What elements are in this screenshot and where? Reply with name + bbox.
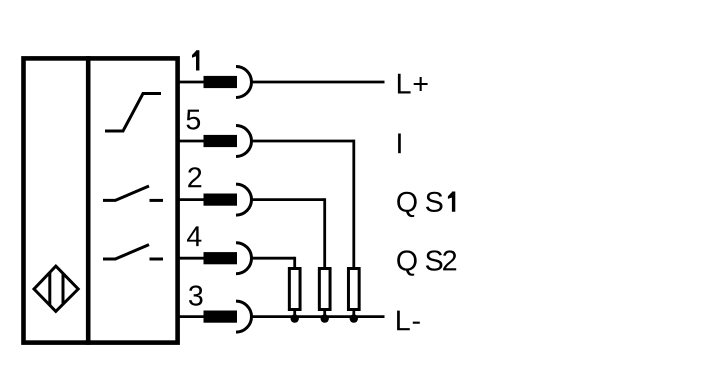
junction dot at R2/L- (321, 314, 329, 322)
sensor body divider (86, 56, 91, 345)
pin 3 number label (189, 285, 203, 305)
switch contact S1 (103, 186, 163, 200)
wire Q S2 vertical drop (293, 257, 296, 269)
sensor element symbol (diamond with plates) (34, 266, 78, 311)
pin 3 stub wire (178, 315, 206, 318)
net label Q S1 (397, 192, 455, 218)
wire Q S1 horizontal (252, 198, 325, 201)
pin 5 number label (187, 110, 201, 130)
junction dot at R1/L- (291, 314, 299, 322)
sensor body outline (24, 58, 178, 342)
pin 1 number label (192, 50, 199, 70)
pin 4 stub wire (178, 257, 206, 260)
wire Q S1 vertical drop (323, 198, 326, 269)
pin 5 stub wire (178, 140, 206, 143)
pin 1 socket arc (236, 67, 252, 98)
net label I (398, 134, 401, 154)
net label Q S2 (397, 250, 456, 275)
pin 4 contact (black plug) (204, 252, 238, 264)
wire L+ (252, 81, 385, 84)
pin 5 contact (black plug) (204, 135, 238, 147)
wire L- bus (252, 315, 385, 318)
load resistor R1 (289, 269, 300, 317)
switch contact S2 (103, 245, 163, 259)
wire Q S2 horizontal (252, 257, 295, 260)
pin 5 socket arc (236, 126, 252, 157)
wire I horizontal (252, 140, 354, 143)
junction dot at R3/L- (350, 314, 358, 322)
net label L- (397, 311, 420, 331)
analog output ramp symbol (105, 94, 161, 132)
pin 1 contact (black plug) (204, 76, 238, 88)
pin 2 number label (188, 167, 201, 187)
net label L+ (398, 74, 428, 94)
pin 2 socket arc (236, 184, 252, 215)
pin 2 stub wire (178, 198, 206, 201)
pin 1 stub wire (178, 81, 206, 84)
pin 4 number label (187, 226, 201, 246)
load resistor R2 (319, 269, 330, 317)
wire I vertical drop (352, 140, 355, 269)
pin 2 contact (black plug) (204, 194, 238, 206)
load resistor R3 (348, 269, 359, 317)
pin 3 socket arc (236, 301, 252, 332)
pin 4 socket arc (236, 243, 252, 274)
pin 3 contact (black plug) (204, 311, 238, 323)
